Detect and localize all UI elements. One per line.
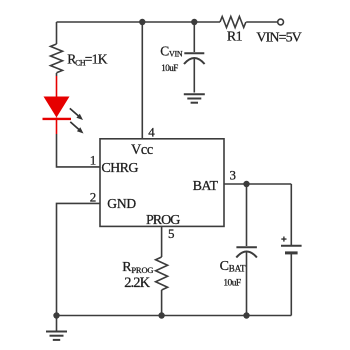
- battery BT1: [281, 246, 302, 316]
- svg-text:CHRG: CHRG: [101, 161, 138, 176]
- capacitor C_BAT: [236, 247, 257, 315]
- node junction bottom left: [53, 312, 59, 318]
- wire Vcc pin 4 vertical: [141, 22, 143, 139]
- label + (battery polarity): [281, 237, 286, 242]
- wire R_PROG to bottom rail: [161, 290, 163, 316]
- capacitor C_VIN: [184, 53, 205, 92]
- LED D1 (red): [43, 76, 72, 134]
- svg-text:R1: R1: [227, 30, 243, 45]
- wire PROG pin 5 vertical: [161, 226, 163, 257]
- svg-text:RCH=1K: RCH=1K: [67, 51, 108, 67]
- resistor R1: [220, 17, 246, 28]
- svg-text:RPROG: RPROG: [122, 260, 153, 275]
- svg-text:VIN=5V: VIN=5V: [256, 31, 301, 46]
- node junction top CVIN branch: [191, 19, 197, 25]
- node junction bottom R_PROG: [158, 312, 164, 318]
- wire CVIN branch vertical: [193, 22, 195, 52]
- ground (below C_VIN): [184, 94, 205, 102]
- resistor R_PROG: [156, 257, 168, 290]
- svg-text:4: 4: [148, 124, 155, 139]
- wire GND pin 2 to left rail: [57, 203, 101, 315]
- terminal VIN (open circle): [278, 19, 284, 25]
- wire BAT pin 3 to right: [224, 183, 291, 185]
- LED indicator arrows: [70, 108, 84, 133]
- resistor R_CH=1K: [51, 22, 63, 76]
- node junction bottom C_BAT: [243, 312, 249, 318]
- svg-text:CBAT: CBAT: [220, 259, 246, 274]
- node junction top Vcc branch: [139, 19, 145, 25]
- svg-text:BAT: BAT: [193, 179, 219, 194]
- svg-text:2.2K: 2.2K: [124, 275, 150, 291]
- svg-text:Vcc: Vcc: [131, 142, 153, 158]
- wire top rail: [57, 21, 221, 23]
- svg-text:CVIN: CVIN: [160, 43, 183, 58]
- svg-text:5: 5: [168, 226, 175, 241]
- wire battery branch vertical: [290, 184, 292, 245]
- svg-text:GND: GND: [107, 196, 136, 211]
- wire C_BAT branch vertical: [246, 184, 248, 246]
- ground (bottom left): [46, 316, 67, 340]
- wire LED to CHRG pin 1: [57, 134, 101, 167]
- svg-text:3: 3: [230, 167, 237, 182]
- svg-text:2: 2: [90, 190, 97, 205]
- svg-text:10uF: 10uF: [161, 63, 178, 73]
- wire R1 to VIN terminal: [246, 21, 277, 23]
- wire bottom rail: [57, 315, 292, 317]
- node junction BAT / C_BAT: [243, 181, 249, 187]
- svg-text:10uF: 10uF: [223, 279, 240, 289]
- svg-text:PROG: PROG: [146, 213, 180, 228]
- IC U1 body: [100, 139, 224, 227]
- svg-text:1: 1: [90, 152, 97, 167]
